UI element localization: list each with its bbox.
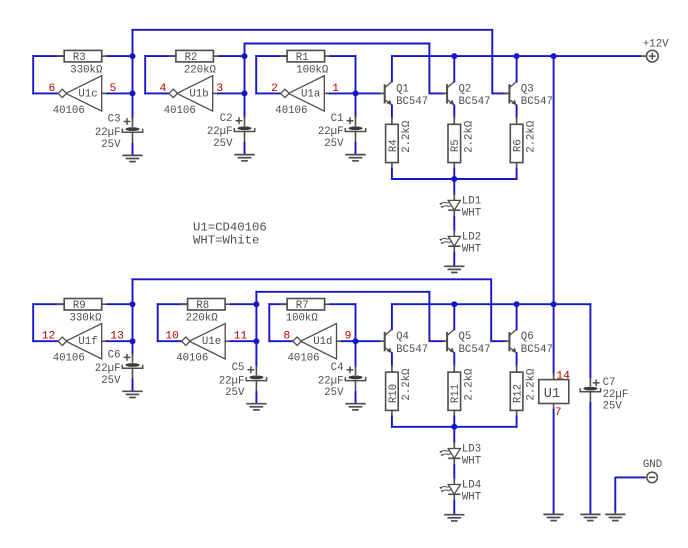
wire Q4 emitter (391, 353, 393, 365)
svg-text:40106: 40106 (164, 105, 196, 117)
wire capacitor to ground (132, 380, 134, 391)
svg-text:C1: C1 (331, 113, 344, 125)
wire U1 pin 7 stub (553, 404, 555, 410)
capacitor C6 22µF 25V (95, 350, 143, 387)
wire Q5 emitter (453, 353, 455, 365)
wire R6 bottom pin (516, 163, 518, 169)
svg-text:C4: C4 (331, 362, 344, 374)
svg-text:40106: 40106 (275, 105, 307, 117)
svg-text:22µF: 22µF (318, 375, 344, 387)
ground under C4 (345, 404, 365, 410)
ground under C3 (122, 155, 142, 161)
svg-text:BC547: BC547 (521, 344, 553, 356)
LED LD4 WHT (439, 478, 482, 504)
wire output row (330, 92, 356, 94)
wire Q6 collector to bottom rail (516, 304, 518, 329)
wire feedback row right (231, 303, 256, 305)
svg-text:25V: 25V (603, 400, 623, 412)
node junction C2 col / feedback (242, 53, 248, 59)
svg-text:2.2kΩ: 2.2kΩ (401, 368, 413, 401)
wire output row (218, 92, 245, 94)
wire inverter output pin (102, 92, 108, 94)
svg-text:22µF: 22µF (207, 126, 233, 138)
wire output column vertical (355, 56, 357, 117)
capacitor C2 22µF 25V (207, 113, 255, 150)
svg-text:+12V: +12V (643, 38, 669, 50)
svg-text:10: 10 (165, 331, 179, 343)
wire R10 to LED row (391, 417, 393, 427)
svg-text:40106: 40106 (176, 353, 208, 365)
wire resistor right pin (102, 55, 109, 57)
svg-text:100kΩ: 100kΩ (286, 312, 319, 324)
svg-text:22µF: 22µF (95, 363, 121, 375)
resistor R9 (64, 299, 102, 325)
svg-text:1: 1 (332, 83, 339, 95)
ground under LD4 (444, 515, 464, 521)
wire feedback left vertical (32, 304, 34, 341)
ground under C5 (246, 404, 266, 410)
svg-text:2.2kΩ: 2.2kΩ (526, 120, 538, 153)
svg-text:U1b: U1b (189, 88, 208, 100)
svg-text:22µF: 22µF (318, 126, 344, 138)
transistor Q4 BC547 (380, 329, 428, 356)
wire resistor right pin (225, 303, 232, 305)
wire resistor right pin (325, 55, 332, 57)
wire output column vertical (132, 279, 134, 354)
svg-text:25V: 25V (213, 138, 233, 150)
svg-text:2.2kΩ: 2.2kΩ (463, 368, 475, 401)
resistor R11 2.2kΩ (448, 368, 475, 410)
op-amp U1b (inverter) (164, 76, 213, 117)
wire LD1 to LD2 (453, 217, 455, 230)
svg-text:U1: U1 (544, 387, 560, 402)
wire output column vertical (255, 292, 257, 367)
node junction Q2 collector / rail (451, 53, 457, 59)
wire output row (342, 340, 356, 342)
svg-text:R6: R6 (513, 139, 525, 152)
wire to LD1 (453, 179, 455, 194)
svg-text:22µF: 22µF (95, 127, 121, 139)
svg-text:LD2: LD2 (462, 232, 481, 244)
ground under C1 (345, 155, 365, 161)
wire U1e output to Q5 base (256, 292, 443, 341)
svg-text:25V: 25V (101, 375, 121, 387)
LED LD1 WHT (439, 194, 482, 220)
svg-text:BC547: BC547 (396, 96, 428, 108)
wire bottom +12V rail (392, 303, 591, 305)
resistor R3 (64, 50, 103, 76)
svg-text:220kΩ: 220kΩ (184, 64, 217, 76)
svg-text:WHT: WHT (462, 492, 482, 504)
svg-text:40106: 40106 (53, 353, 85, 365)
wire +12V rail (392, 55, 641, 57)
svg-text:2.2kΩ: 2.2kΩ (526, 368, 538, 401)
wire Q3 emitter (516, 105, 518, 117)
svg-text:9: 9 (345, 331, 352, 343)
wire inverter output pin (225, 340, 231, 342)
node junction C5 col / output (253, 338, 259, 344)
transistor Q2 BC547 (443, 82, 491, 109)
wire feedback row left (145, 55, 175, 57)
node junction Q3 collector / rail (514, 53, 520, 59)
svg-text:40106: 40106 (53, 105, 85, 117)
svg-text:2.2kΩ: 2.2kΩ (401, 120, 413, 153)
wire inverter output pin (324, 92, 330, 94)
wire Q2 emitter (453, 105, 455, 117)
wire R11 bottom pin (453, 410, 455, 416)
svg-text:Q5: Q5 (459, 331, 472, 343)
svg-text:5: 5 (110, 83, 117, 95)
wire inverter output pin (102, 340, 108, 342)
wire R5 bottom pin (453, 163, 455, 169)
resistor R6 2.2kΩ (510, 120, 537, 162)
svg-text:Q2: Q2 (459, 83, 472, 95)
wire feedback left vertical (144, 56, 146, 93)
wire Q4 collector to bottom rail (391, 304, 393, 329)
svg-text:330kΩ: 330kΩ (70, 312, 103, 324)
wire Q6 emitter (516, 353, 518, 365)
GND supply symbol (643, 459, 662, 483)
node junction C4 col / output (353, 338, 359, 344)
capacitor C7 22µF 25V (580, 377, 628, 412)
wire to inverter input (33, 340, 59, 342)
resistor R12 2.2kΩ (510, 368, 537, 410)
wire capacitor to ground (244, 143, 246, 154)
transistor Q6 BC547 (505, 329, 553, 356)
wire to inverter input (33, 92, 59, 94)
wire GND stub (644, 476, 647, 478)
wire Q5 collector to bottom rail (453, 304, 455, 329)
resistor R8 (186, 299, 226, 325)
svg-text:Q3: Q3 (521, 83, 534, 95)
node junction C5 col / feedback (253, 301, 259, 307)
svg-text:R7: R7 (296, 300, 309, 312)
node junction C2 col / output (242, 90, 248, 96)
wire U1f output to Q6 base (133, 279, 506, 341)
svg-text:R9: R9 (73, 300, 86, 312)
node junction bottom rail / U1 supply (551, 301, 557, 307)
wire inverter output pin (213, 92, 219, 94)
transistor Q1 BC547 (380, 82, 428, 109)
resistor R2 (176, 50, 217, 76)
op-amp U1f (inverter) (53, 324, 102, 365)
svg-text:WHT: WHT (462, 456, 482, 468)
svg-text:BC547: BC547 (459, 344, 491, 356)
wire to LD3 (453, 427, 455, 443)
LED LD2 WHT (439, 230, 482, 256)
ground under C2 (234, 155, 254, 161)
svg-text:7: 7 (555, 407, 562, 419)
op-amp U1e (inverter) (176, 324, 225, 365)
svg-text:BC547: BC547 (459, 96, 491, 108)
wire R4 bottom pin (391, 163, 393, 169)
node junction LED column (bottom) (451, 424, 457, 430)
svg-text:11: 11 (234, 331, 248, 343)
wire R12 to LED row (516, 417, 518, 427)
wire feedback row right (331, 303, 356, 305)
wire feedback left vertical (157, 304, 159, 341)
svg-text:R3: R3 (73, 52, 86, 64)
op-amp U1c (inverter) (53, 76, 102, 117)
svg-text:4: 4 (160, 83, 167, 95)
svg-text:R1: R1 (296, 52, 309, 64)
ground under LD2 (444, 266, 464, 272)
svg-text:25V: 25V (101, 139, 121, 151)
svg-text:Q6: Q6 (521, 331, 534, 343)
ground under C7 (580, 514, 600, 520)
wire to inverter input (158, 340, 183, 342)
node junction LED column (top) (451, 176, 457, 182)
wire feedback row left (33, 55, 63, 57)
svg-text:WHT=White: WHT=White (193, 234, 259, 248)
wire LD3 to LD4 (453, 465, 455, 478)
svg-text:R10: R10 (388, 384, 400, 403)
wire U1 pin 7 to ground (553, 410, 555, 514)
wire U1b output to Q2 base (245, 44, 444, 94)
svg-text:BC547: BC547 (396, 344, 428, 356)
wire resistor right pin (325, 303, 332, 305)
svg-text:WHT: WHT (462, 244, 482, 256)
wire capacitor to ground (255, 392, 257, 403)
svg-text:U1c: U1c (78, 88, 97, 100)
svg-text:LD3: LD3 (462, 444, 481, 456)
wire feedback row right (108, 303, 133, 305)
wire bottom rail to C7 (589, 304, 591, 377)
node junction C3 col / feedback (130, 53, 136, 59)
svg-text:22µF: 22µF (219, 375, 245, 387)
svg-text:R11: R11 (450, 384, 462, 403)
wire Q3 collector to rail (516, 56, 518, 81)
svg-text:R5: R5 (450, 139, 462, 152)
svg-text:R12: R12 (513, 384, 525, 403)
wire U1a output to Q1 base (356, 92, 381, 94)
node junction Q6 collector / bottom rail (514, 301, 520, 307)
ground under GND symbol (605, 514, 625, 520)
svg-text:Q1: Q1 (396, 83, 409, 95)
LED LD3 WHT (439, 442, 482, 468)
op-amp U1 power block CD40106 (539, 380, 569, 404)
wire LED feed row (bottom) (392, 426, 517, 428)
svg-text:LD1: LD1 (462, 196, 481, 208)
transistor Q5 BC547 (443, 329, 491, 356)
wire U1 pin 14 stub (553, 374, 555, 380)
svg-text:6: 6 (49, 83, 56, 95)
svg-text:22µF: 22µF (603, 389, 629, 401)
wire output column vertical (244, 44, 246, 118)
wire feedback left vertical (255, 56, 257, 93)
node junction C1 col / output (353, 90, 359, 96)
wire feedback row left (269, 303, 286, 305)
svg-text:25V: 25V (225, 387, 245, 399)
wire R12 bottom pin (516, 410, 518, 416)
capacitor C5 22µF 25V (219, 362, 267, 399)
resistor R7 (286, 299, 325, 325)
resistor R5 2.2kΩ (448, 120, 475, 162)
wire to inverter input (269, 340, 293, 342)
resistor R4 2.2kΩ (386, 120, 413, 162)
svg-text:220kΩ: 220kΩ (186, 312, 219, 324)
svg-text:U1e: U1e (202, 336, 221, 348)
wire output row (230, 340, 256, 342)
wire Q1 emitter (391, 105, 393, 117)
wire capacitor to ground (132, 144, 134, 155)
svg-text:BC547: BC547 (521, 96, 553, 108)
svg-text:330kΩ: 330kΩ (70, 64, 103, 76)
wire feedback left vertical (32, 56, 34, 93)
svg-text:Q4: Q4 (396, 331, 409, 343)
op-amp U1d (inverter) (288, 324, 337, 365)
svg-text:13: 13 (110, 331, 124, 343)
wire output row (107, 92, 133, 94)
svg-text:8: 8 (283, 331, 290, 343)
svg-text:25V: 25V (324, 138, 344, 150)
wire feedback row right (108, 55, 133, 57)
node junction C6 col / output (130, 338, 136, 344)
wire feedback row left (33, 303, 63, 305)
wire R6 to LED row (516, 169, 518, 179)
svg-text:U1a: U1a (301, 88, 321, 100)
svg-text:C6: C6 (108, 350, 121, 362)
capacitor C4 22µF 25V (318, 362, 366, 399)
wire LED feed row (top) (392, 178, 517, 180)
svg-text:C5: C5 (232, 362, 245, 374)
svg-text:C7: C7 (603, 377, 616, 389)
transistor Q3 BC547 (505, 82, 553, 109)
svg-text:U1=CD40106: U1=CD40106 (193, 220, 267, 234)
svg-text:U1f: U1f (78, 336, 97, 348)
svg-text:R2: R2 (185, 52, 198, 64)
wire U1d output to Q4 base (356, 340, 381, 342)
wire Q2 collector to rail (453, 56, 455, 81)
svg-text:C2: C2 (220, 113, 233, 125)
wire feedback row right (331, 55, 356, 57)
node junction C3 col / output (130, 90, 136, 96)
svg-text:WHT: WHT (462, 208, 482, 220)
wire capacitor to ground (355, 392, 357, 403)
wire +12V rail down to U1 pin 14 (553, 56, 555, 374)
wire R10 bottom pin (391, 410, 393, 416)
wire resistor right pin (213, 55, 220, 57)
node junction Q5 collector / bottom rail (451, 301, 457, 307)
svg-text:U1d: U1d (313, 336, 332, 348)
svg-text:14: 14 (556, 371, 570, 383)
ground under C6 (122, 391, 142, 397)
capacitor C3 22µF 25V (95, 114, 143, 151)
wire LD2 to ground (453, 253, 455, 266)
wire to inverter input (256, 92, 281, 94)
wire LD4 to ground (453, 501, 455, 514)
wire output row (107, 340, 133, 342)
svg-text:2.2kΩ: 2.2kΩ (463, 120, 475, 153)
wire to inverter input (145, 92, 170, 94)
wire R4 to LED row (391, 169, 393, 179)
wire output column vertical (132, 30, 134, 118)
ground under U1 (543, 514, 563, 520)
svg-text:12: 12 (42, 331, 56, 343)
wire Q1 collector to rail (391, 56, 393, 81)
svg-text:R4: R4 (388, 139, 400, 152)
resistor R10 2.2kΩ (386, 368, 413, 410)
wire output column vertical (355, 304, 357, 366)
wire feedback left vertical (268, 304, 270, 341)
svg-text:3: 3 (216, 83, 223, 95)
wire capacitor to ground (355, 143, 357, 154)
svg-text:40106: 40106 (288, 353, 320, 365)
wire U1c output to Q3 base (133, 30, 506, 94)
node junction C6 col / feedback (130, 301, 136, 307)
node junction rail to bottom supply (551, 53, 557, 59)
wire resistor right pin (102, 303, 109, 305)
+12V supply symbol (641, 38, 669, 62)
svg-text:LD4: LD4 (462, 480, 481, 492)
wire R5 to LED row (453, 169, 455, 179)
wire inverter output pin (337, 340, 343, 342)
wire GND net (615, 477, 644, 512)
wire feedback row left (158, 303, 187, 305)
wire C7 to ground (589, 403, 591, 514)
svg-text:2: 2 (271, 83, 278, 95)
capacitor C1 22µF 25V (318, 113, 366, 150)
wire feedback row right (219, 55, 244, 57)
svg-text:C3: C3 (108, 114, 121, 126)
svg-text:100kΩ: 100kΩ (296, 64, 329, 76)
op-amp U1a (inverter) (275, 76, 324, 117)
svg-text:R8: R8 (196, 300, 209, 312)
resistor R1 (287, 50, 329, 76)
wire R11 to LED row (453, 417, 455, 427)
svg-text:GND: GND (643, 459, 662, 471)
svg-text:25V: 25V (324, 387, 344, 399)
wire feedback row left (256, 55, 286, 57)
